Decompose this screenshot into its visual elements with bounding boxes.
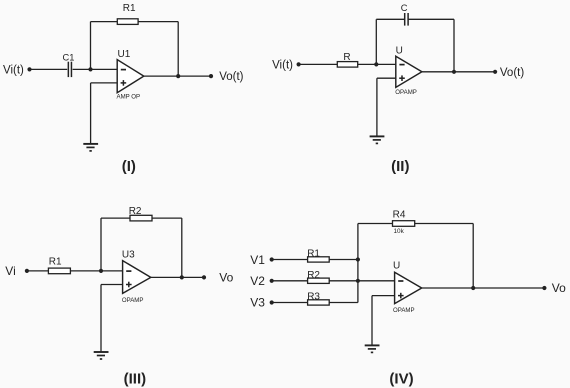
svg-text:10k: 10k: [394, 228, 405, 235]
svg-text:R4: R4: [393, 210, 406, 221]
svg-text:OPAMP: OPAMP: [395, 89, 417, 96]
svg-text:Vi(t): Vi(t): [3, 64, 24, 76]
svg-text:OPAMP: OPAMP: [393, 307, 415, 314]
svg-text:(II): (II): [391, 158, 409, 175]
svg-text:V1: V1: [250, 253, 265, 267]
svg-text:AMP OP: AMP OP: [117, 93, 141, 100]
svg-text:(III): (III): [124, 370, 147, 387]
svg-text:R1: R1: [307, 249, 320, 260]
svg-text:R1: R1: [49, 257, 62, 268]
svg-text:U1: U1: [118, 49, 131, 60]
svg-text:R1: R1: [123, 3, 136, 14]
svg-text:Vo: Vo: [552, 281, 566, 295]
svg-text:U: U: [396, 46, 403, 57]
svg-text:Vo(t): Vo(t): [500, 67, 524, 79]
svg-text:C1: C1: [63, 52, 75, 62]
svg-text:R2: R2: [129, 206, 142, 217]
svg-text:R2: R2: [307, 270, 320, 281]
svg-text:U3: U3: [122, 250, 135, 261]
svg-text:Vo: Vo: [219, 271, 233, 285]
svg-text:R: R: [343, 52, 350, 63]
svg-text:U: U: [393, 261, 400, 272]
svg-text:V2: V2: [250, 274, 265, 288]
svg-text:(IV): (IV): [389, 370, 413, 387]
svg-text:C: C: [401, 3, 408, 13]
svg-text:(I): (I): [122, 158, 136, 175]
svg-text:OPAMP: OPAMP: [122, 297, 144, 304]
svg-text:Vi: Vi: [5, 264, 15, 278]
svg-text:Vo(t): Vo(t): [219, 71, 243, 83]
svg-text:Vi(t): Vi(t): [272, 60, 293, 72]
svg-text:V3: V3: [250, 295, 265, 309]
svg-text:R3: R3: [307, 292, 320, 303]
